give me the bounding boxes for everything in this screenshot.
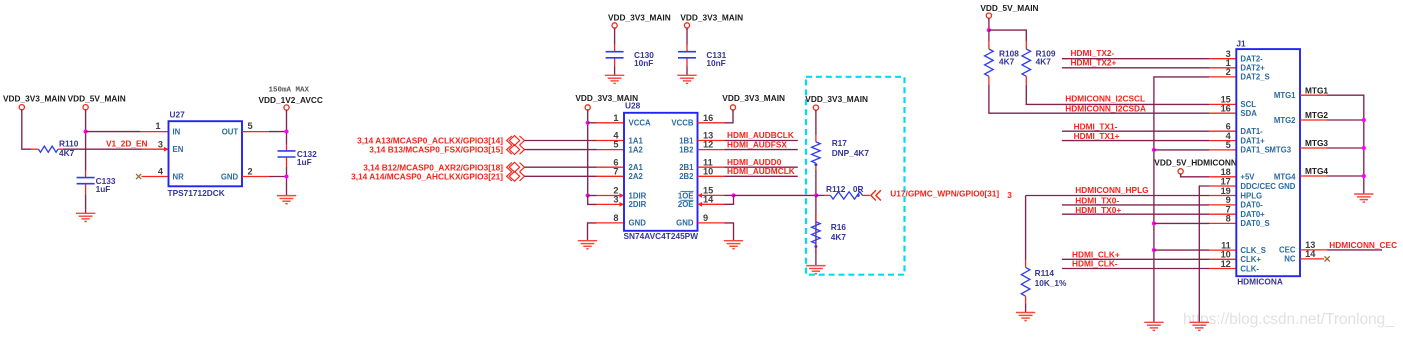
J1 pin 16 stub [1209, 112, 1236, 114]
resistor R108 4K7 [985, 30, 1020, 85]
J1 pin 1 stub [1209, 67, 1236, 69]
ground under C132 [277, 196, 296, 204]
svg-text:R114: R114 [1035, 268, 1055, 278]
wire HDMI_TX1+ [1062, 140, 1209, 142]
wire to pin2 1DIR [588, 195, 597, 197]
svg-text:NC: NC [1284, 255, 1296, 264]
power symbol VDD_3V3_MAIN VCCA [575, 93, 638, 112]
ground under C130 [605, 75, 624, 83]
svg-text:+5V: +5V [1240, 173, 1255, 182]
junction OUT/AVCC [284, 130, 288, 134]
op-amp U27 body [169, 121, 243, 186]
junction MTG2 [1362, 118, 1366, 122]
svg-text:16: 16 [703, 113, 713, 123]
svg-text:2B1: 2B1 [679, 163, 694, 172]
wire HDMI_CLK- [1062, 268, 1209, 270]
capacitor C133 1uF [77, 176, 116, 194]
ground under C131 [677, 75, 696, 83]
J1 pin 8 stub [1209, 222, 1236, 224]
svg-text:DNP_4K7: DNP_4K7 [832, 148, 870, 158]
wire OUT to VDD_1V2_AVCC rail [269, 131, 287, 133]
wire HDMICONN_I2CSDA [989, 85, 1209, 113]
ground under U28 pin8 [578, 241, 597, 249]
U28 pin 5 stub [597, 149, 625, 151]
svg-text:OUT: OUT [222, 127, 239, 136]
junction shield DAT1_S [1152, 148, 1156, 152]
svg-text:3: 3 [1007, 190, 1012, 200]
J1 pin 11 stub [1209, 249, 1236, 251]
svg-text:CLK-: CLK- [1240, 264, 1259, 273]
svg-text:2DIR: 2DIR [629, 200, 647, 209]
wire MCASP row 5 [525, 149, 597, 151]
wire HDMI_TX0- [1062, 204, 1209, 206]
wire net HDMI_AUDBCLK [725, 140, 798, 142]
J1 pin 12 stub [1209, 268, 1236, 270]
svg-text:VDD_5V_MAIN: VDD_5V_MAIN [68, 94, 126, 104]
pin 5 OUT stub [242, 131, 269, 133]
svg-text:MTG1: MTG1 [1305, 85, 1328, 95]
resistor R114 10K_1% [1021, 260, 1067, 305]
svg-text:SCL: SCL [1240, 100, 1256, 109]
wire to R109 top [989, 30, 1026, 41]
wire to C131 [686, 28, 688, 45]
J1 pin 10 stub [1209, 258, 1236, 260]
power symbol VDD_1V2_AVCC [259, 95, 323, 112]
svg-text:U28: U28 [625, 101, 641, 111]
svg-text:CLK+: CLK+ [1240, 255, 1261, 264]
svg-text:MTG4: MTG4 [1305, 166, 1328, 176]
power symbol VDD_5V_MAIN left [68, 94, 126, 112]
off-page connector A13/MCASP0_ACLKX/GPIO3[14] [507, 136, 512, 145]
wire to R17 [815, 110, 817, 135]
wire HDMI_TX1- [1062, 130, 1209, 132]
svg-text:5: 5 [613, 140, 618, 150]
svg-text:VDD_5V_MAIN: VDD_5V_MAIN [980, 3, 1038, 13]
pin 4 NR stub [142, 176, 169, 178]
svg-text:VCCB: VCCB [671, 119, 693, 128]
wire VDD_1V2_AVCC down [286, 110, 288, 145]
wire MTG4 [1327, 175, 1364, 177]
svg-text:HPLG: HPLG [1240, 191, 1262, 200]
wire net HDMI_AUDFSX [725, 149, 798, 151]
svg-text:HDMI_AUDMCLK: HDMI_AUDMCLK [727, 166, 795, 176]
svg-text:DAT0+: DAT0+ [1240, 210, 1265, 219]
capacitor C132 1uF [278, 149, 318, 167]
capacitor C133 1uF red stubs [85, 171, 87, 178]
wire shield rail DAT2_S [1154, 77, 1209, 322]
U28 pin 13 stub [698, 140, 725, 142]
svg-text:9: 9 [703, 213, 708, 223]
wire R114 to ground [1025, 304, 1027, 313]
svg-text:10: 10 [703, 166, 713, 176]
J1 pin 13 stub [1300, 249, 1327, 251]
wire VDD_5V_MAIN rail down to C133 [85, 109, 87, 170]
junction 1DIR [586, 193, 590, 197]
wire R16 to ground [815, 251, 817, 266]
wire HDMI_CLK+ [1062, 258, 1209, 260]
svg-text:1B2: 1B2 [679, 145, 694, 154]
power symbol VDD_3V3_MAIN VCCB [722, 93, 785, 112]
svg-text:https://blog.csdn.net/Tronlong: https://blog.csdn.net/Tronlong_ [1183, 311, 1394, 328]
svg-text:VDD_3V3_MAIN: VDD_3V3_MAIN [680, 13, 743, 23]
wire C131 to ground [686, 67, 688, 76]
J1 pin 14 stub no-connect [1300, 258, 1324, 260]
junction MTG3 [1362, 146, 1366, 150]
wire C132 to ground [286, 167, 288, 196]
wire net HDMI_AUDMCLK [725, 175, 798, 177]
ground under R16 [806, 266, 825, 274]
svg-text:VCCA: VCCA [629, 119, 651, 128]
wire DDC/CEC GND rail [1199, 186, 1209, 322]
power symbol VDD_3V3_MAIN left [3, 94, 66, 112]
wire 1OE [725, 194, 734, 196]
ground MTG rail [1354, 194, 1373, 202]
U28 pin 10 stub [698, 175, 725, 177]
J1 pin 7 stub [1209, 213, 1236, 215]
svg-text:4K7: 4K7 [1036, 57, 1052, 67]
pin 1 IN stub [141, 131, 169, 133]
J1 pin MTG4 stub [1300, 175, 1327, 177]
svg-text:4K7: 4K7 [999, 57, 1015, 67]
off-page connector GPMC_WPN [871, 190, 876, 200]
svg-text:2B2: 2B2 [679, 172, 694, 181]
J1 pin 4 stub [1209, 140, 1236, 142]
svg-text:MTG2: MTG2 [1305, 110, 1328, 120]
svg-text:3: 3 [158, 139, 163, 149]
svg-text:3,14 B13/MCASP0_FSX/GPIO3: 3,14 B13/MCASP0_FSX/GPIO3[15] [369, 145, 503, 155]
svg-text:VDD_3V3_MAIN: VDD_3V3_MAIN [805, 94, 868, 104]
svg-text:MTG3: MTG3 [1269, 146, 1291, 155]
J1 pin MTG3 stub [1300, 147, 1327, 149]
wire HDMI_TX0+ [1062, 213, 1209, 215]
off-page connector A14/MCASP0_AHCLKX/GPIO3[21] [507, 172, 512, 181]
U27 pin names [173, 127, 239, 181]
wire MCASP row 7 [525, 175, 597, 177]
capacitor C130 10nF [606, 50, 655, 68]
svg-text:7: 7 [613, 166, 618, 176]
J1 pin 19 stub [1209, 195, 1236, 197]
svg-text:14: 14 [1305, 249, 1316, 259]
svg-text:R112: R112 [826, 184, 846, 194]
svg-text:VDD_1V2_AVCC: VDD_1V2_AVCC [259, 95, 323, 105]
wire VDD_5V to pin1 [86, 131, 141, 133]
svg-text:1: 1 [155, 121, 160, 131]
svg-text:DAT1_S: DAT1_S [1240, 146, 1269, 155]
svg-text:14: 14 [703, 194, 714, 204]
svg-text:VDD_3V3_MAIN: VDD_3V3_MAIN [3, 94, 66, 104]
wire net V1_2D_EN [63, 148, 142, 150]
power symbol VDD_3V3_MAIN for C130 [608, 13, 671, 30]
svg-text:1A1: 1A1 [629, 136, 644, 145]
svg-text:2A1: 2A1 [629, 163, 644, 172]
wire VDD_3V3_MAIN to R110 [22, 109, 31, 149]
svg-text:SN74AVC4T245PW: SN74AVC4T245PW [624, 231, 699, 241]
U28 pin 8 stub [597, 222, 625, 224]
U28 pin 11 stub [698, 166, 725, 168]
J1 pin 6 stub [1209, 130, 1236, 132]
junction shield CLK_S [1152, 248, 1156, 252]
wire MCASP row 4 [525, 140, 597, 142]
U28 pin names right [671, 119, 694, 228]
svg-text:GND: GND [629, 219, 647, 228]
svg-text:10K_1%: 10K_1% [1035, 278, 1067, 288]
svg-text:4K7: 4K7 [831, 232, 847, 242]
pin 3 EN stub [142, 148, 169, 150]
wire HPLG down to R114 [1025, 196, 1027, 260]
U28 pin 2 stub [597, 195, 625, 197]
junction GND/C132 [284, 174, 288, 178]
wire OE to R112 [734, 194, 817, 196]
resistor R17 DNP_4K7 [812, 135, 870, 170]
wire HDMICONN_HPLG [1026, 195, 1209, 197]
connector J1 body [1236, 49, 1300, 276]
svg-text:CLK_S: CLK_S [1240, 246, 1266, 255]
svg-text:DAT1+: DAT1+ [1240, 136, 1265, 145]
ground shield rail [1144, 322, 1163, 330]
J1 pin 17 stub [1209, 185, 1236, 187]
off-page connector B12/MCASP0_AXR2/GPIO3[18] [507, 163, 512, 172]
junction shield DAT0_S [1152, 221, 1156, 225]
svg-text:HDMI_TX0+: HDMI_TX0+ [1075, 205, 1121, 215]
ic U28 body [624, 113, 698, 231]
U28 pin 3 stub [597, 203, 625, 205]
svg-text:HDMICONN_CEC: HDMICONN_CEC [1329, 240, 1397, 250]
U28 pin 9 stub [698, 222, 725, 224]
wire 2OE [725, 195, 734, 204]
J1 pin names right [1269, 91, 1296, 264]
ground under R114 [1016, 313, 1035, 321]
svg-text:DAT0-: DAT0- [1240, 201, 1263, 210]
U28 pin names left [629, 119, 651, 228]
svg-text:GND: GND [221, 172, 239, 181]
ground DDC/CEC [1190, 322, 1209, 330]
svg-text:MTG3: MTG3 [1305, 138, 1328, 148]
capacitor C132 red stubs [286, 145, 288, 151]
wire VCCB [725, 110, 734, 123]
svg-text:HDMICONN_I2CSDA: HDMICONN_I2CSDA [1065, 103, 1146, 113]
svg-text:4: 4 [158, 167, 164, 177]
J1 pin 18 stub [1209, 176, 1236, 178]
svg-text:2OE: 2OE [678, 200, 694, 209]
svg-text:R16: R16 [831, 222, 847, 232]
svg-text:DAT2-: DAT2- [1240, 55, 1263, 64]
svg-text:HDMICONN_HPLG: HDMICONN_HPLG [1075, 185, 1148, 195]
svg-text:3: 3 [613, 195, 618, 205]
svg-text:EN: EN [173, 145, 184, 154]
ground under U28 pin9 [724, 241, 743, 249]
svg-text:R17: R17 [832, 138, 848, 148]
capacitor C131 red stubs [686, 45, 688, 52]
off-page connector B13/MCASP0_FSX/GPIO3[15] [507, 145, 512, 154]
capacitor C130 red stubs [614, 45, 616, 52]
svg-text:DAT0_S: DAT0_S [1240, 219, 1269, 228]
svg-text:8: 8 [613, 213, 618, 223]
svg-text:1uF: 1uF [297, 157, 312, 167]
junction VDD_5V/IN [84, 130, 88, 134]
svg-text:HDMICONN_I2CSCL: HDMICONN_I2CSCL [1065, 94, 1145, 104]
svg-text:0R: 0R [853, 184, 864, 194]
junction VCCA [586, 121, 590, 125]
svg-text:16: 16 [1221, 104, 1231, 114]
svg-text:5: 5 [1226, 140, 1231, 150]
svg-text:U17/GPMC_WPN/GPIO0[31]: U17/GPMC_WPN/GPIO0[31] [890, 189, 999, 199]
wire HDMICONN_CEC [1327, 249, 1382, 251]
svg-text:GND: GND [676, 219, 694, 228]
svg-text:1uF: 1uF [96, 184, 111, 194]
svg-text:1B1: 1B1 [679, 136, 694, 145]
pin 2 GND stub [242, 176, 269, 178]
J1 pin 3 stub [1209, 58, 1236, 60]
wire HDMI_TX2+ [1062, 67, 1209, 69]
svg-text:150mA MAX: 150mA MAX [269, 87, 310, 95]
power symbol VDD_3V3_MAIN for C131 [680, 13, 743, 30]
wire MCASP row 6 [525, 166, 597, 168]
wire CLK_S [1154, 249, 1209, 251]
U28 pin 7 stub [597, 175, 625, 177]
svg-text:DAT2+: DAT2+ [1240, 64, 1265, 73]
resistor R112 0R [816, 184, 870, 199]
U28 pin 12 stub [698, 149, 725, 151]
svg-text:TPS71712DCK: TPS71712DCK [168, 188, 225, 198]
wire pin9 to ground [725, 223, 734, 241]
U28 pin 14 stub [698, 203, 725, 205]
wire VCCA rail [587, 110, 589, 196]
U28 pin 16 stub [698, 122, 725, 124]
J1 pin names left [1240, 55, 1295, 274]
svg-text:HDMI_TX2-: HDMI_TX2- [1071, 48, 1115, 58]
svg-text:J1: J1 [1236, 39, 1246, 49]
resistor R110 4K7 [31, 138, 79, 158]
U28 pin 1 stub [597, 122, 625, 124]
wire HDMI_TX2- [1062, 58, 1209, 60]
junction MTG4 [1362, 174, 1366, 178]
svg-text:DDC/CEC GND: DDC/CEC GND [1240, 182, 1295, 191]
svg-text:VDD_3V3_MAIN: VDD_3V3_MAIN [722, 93, 785, 103]
U28 pin 6 stub [597, 166, 625, 168]
svg-text:2A2: 2A2 [629, 172, 644, 181]
power symbol VDD_5V_MAIN right [980, 3, 1038, 20]
svg-text:MTG1: MTG1 [1274, 91, 1296, 100]
wire to pin1 VCCA [588, 122, 597, 124]
wire VDD_5V down [988, 18, 990, 30]
svg-text:10nF: 10nF [634, 58, 653, 68]
junction R17/R112/R16 [814, 193, 818, 197]
svg-text:R110: R110 [59, 138, 79, 148]
wire MTG rail [1327, 95, 1364, 194]
svg-text:1DIR: 1DIR [629, 191, 647, 200]
svg-text:HDMICONA: HDMICONA [1237, 277, 1283, 287]
svg-text:3,14 A14/MCASP0_AHCLKX/GP: 3,14 A14/MCASP0_AHCLKX/GPIO3[21] [351, 171, 503, 181]
wire DAT1_S [1154, 149, 1209, 151]
wire HDMICONN_I2CSCL [1026, 85, 1209, 105]
wire net HDMI_AUDD0 [725, 166, 798, 168]
svg-text:MTG2: MTG2 [1274, 116, 1296, 125]
svg-text:VDD_5V_HDMICONN: VDD_5V_HDMICONN [1154, 157, 1237, 167]
capacitor C131 10nF [678, 50, 727, 68]
wire R17 to node [815, 170, 817, 195]
svg-text:17: 17 [1221, 176, 1231, 186]
svg-text:12: 12 [703, 140, 713, 150]
U28 pin 4 stub [597, 140, 625, 142]
wire pin8 to ground [588, 223, 597, 241]
svg-text:VDD_3V3_MAIN: VDD_3V3_MAIN [608, 13, 671, 23]
wire C133 to ground [85, 194, 87, 213]
svg-text:1: 1 [613, 113, 618, 123]
J1 pin 2 stub [1209, 76, 1236, 78]
svg-text:8: 8 [1226, 214, 1231, 224]
power symbol VDD_5V_HDMICONN [1154, 157, 1237, 176]
resistor R16 4K7 [812, 215, 847, 252]
svg-text:1A2: 1A2 [629, 145, 644, 154]
wire C130 to ground [614, 67, 616, 76]
ground under C133 [76, 213, 95, 221]
wire node to R16 [815, 195, 817, 252]
U28 pin 15 stub [698, 194, 725, 196]
wire to C130 [614, 28, 616, 45]
dashed option box [806, 77, 905, 275]
wire +5V to pin18 [1181, 174, 1209, 177]
svg-text:12: 12 [1221, 259, 1231, 269]
wire MTG2 [1327, 119, 1364, 121]
svg-text:DAT1-: DAT1- [1240, 127, 1263, 136]
wire MTG3 [1327, 147, 1364, 149]
J1 pin 15 stub [1209, 103, 1236, 105]
wire DAT0_S [1154, 222, 1209, 224]
svg-text:U27: U27 [170, 110, 186, 120]
J1 pin 5 stub [1209, 149, 1236, 151]
J1 pin MTG1 stub [1300, 94, 1327, 96]
svg-text:2: 2 [1226, 67, 1231, 77]
svg-text:DAT2_S: DAT2_S [1240, 73, 1269, 82]
svg-text:HDMI_TX1+: HDMI_TX1+ [1074, 131, 1120, 141]
resistor R109 4K7 [1022, 41, 1056, 85]
svg-text:HDMI_CLK-: HDMI_CLK- [1072, 259, 1118, 269]
svg-text:HDMI_AUDFSX: HDMI_AUDFSX [727, 139, 787, 149]
svg-text:1OE: 1OE [678, 191, 694, 200]
wire to pin3 2DIR [588, 196, 597, 205]
power symbol VDD_3V3_MAIN option [805, 94, 868, 112]
junction R108/R109 [987, 28, 991, 32]
svg-text:2: 2 [248, 167, 253, 177]
junction OE [731, 193, 735, 197]
svg-text:5: 5 [248, 121, 253, 131]
wire GND to ground rail [269, 176, 287, 178]
svg-text:SDA: SDA [1240, 109, 1257, 118]
svg-text:10nF: 10nF [706, 58, 725, 68]
svg-text:MTG4: MTG4 [1274, 173, 1296, 182]
svg-text:CEC: CEC [1279, 246, 1296, 255]
J1 pin 9 stub [1209, 204, 1236, 206]
svg-text:NR: NR [173, 172, 185, 181]
J1 pin MTG2 stub [1300, 119, 1327, 121]
svg-text:IN: IN [173, 127, 181, 136]
svg-text:V1_2D_EN: V1_2D_EN [106, 139, 148, 149]
